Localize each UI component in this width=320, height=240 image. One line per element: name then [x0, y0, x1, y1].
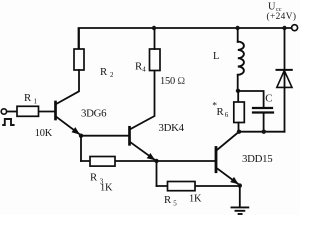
diode D1 cathode bar	[277, 69, 292, 71]
resistor R2	[74, 49, 84, 70]
svg-text:1K: 1K	[189, 193, 202, 204]
svg-text:1: 1	[34, 97, 38, 105]
node A emitter Q1	[79, 134, 83, 138]
capacitor C bottom plate	[253, 111, 273, 113]
resistor R3	[90, 157, 115, 167]
wire R6 bottom lead	[238, 123, 240, 132]
transistor Q3 emitter arrow	[230, 177, 238, 184]
svg-text:3DD15: 3DD15	[242, 153, 272, 165]
svg-text:U: U	[268, 1, 276, 12]
transistor Q2 emitter arrow	[147, 153, 156, 160]
resistor R6	[234, 102, 245, 123]
node D L-R6-C	[236, 89, 240, 93]
svg-text:C: C	[265, 92, 272, 104]
wire input to R1	[7, 111, 17, 113]
wire node D to capacitor top	[238, 91, 264, 107]
transistor Q3 emitter	[217, 168, 239, 184]
transistor Q1 emitter	[57, 117, 81, 135]
svg-text:L: L	[213, 51, 219, 62]
wire node A to Q2 base	[81, 135, 128, 137]
svg-text:5: 5	[173, 199, 177, 207]
node rail-L	[235, 26, 239, 30]
transistor Q3 3DD15 base bar	[215, 148, 218, 172]
wire collector bus	[239, 131, 285, 133]
node B emitter Q2	[154, 159, 158, 163]
svg-text:R: R	[24, 92, 32, 104]
svg-text:R: R	[90, 172, 98, 184]
wire +24V supply rail	[79, 28, 292, 49]
transistor Q2 3DK4 base bar	[128, 127, 131, 144]
svg-text:6: 6	[225, 111, 229, 119]
ground	[232, 206, 249, 208]
svg-text:10K: 10K	[35, 128, 53, 139]
capacitor C top plate	[253, 107, 272, 109]
svg-text:3DG6: 3DG6	[81, 108, 107, 120]
transistor Q2 collector	[131, 71, 155, 129]
transistor Q2 emitter	[131, 142, 156, 160]
transistor Q3 collector	[217, 132, 239, 150]
svg-text:150 Ω: 150 Ω	[160, 76, 185, 87]
wire emitter Q3 to ground	[239, 186, 241, 207]
node C emitter Q3	[238, 183, 242, 187]
wire R1 to Q1 base	[39, 111, 55, 113]
svg-text:R: R	[100, 66, 108, 78]
wire capacitor bottom lead	[263, 114, 265, 132]
wire R2 top lead	[78, 29, 80, 49]
inductor L	[238, 42, 244, 75]
svg-text:R: R	[164, 194, 172, 206]
wire R3 line	[81, 160, 157, 162]
transistor Q1 3DG6 base bar	[54, 102, 57, 119]
resistor R1	[17, 106, 39, 116]
svg-text:2: 2	[110, 71, 114, 79]
wire L bottom lead	[237, 75, 239, 91]
node rail-R4	[152, 26, 156, 30]
wire diode branch	[284, 29, 286, 132]
svg-text:(+24V): (+24V)	[267, 11, 297, 22]
wire node A down to R3	[80, 136, 82, 161]
svg-text:4: 4	[142, 66, 146, 74]
wire node B down to R5	[156, 161, 158, 186]
wire node B to Q3 base	[157, 160, 215, 162]
wire R6 top lead	[237, 91, 239, 102]
transistor Q1 emitter arrow	[72, 127, 81, 135]
svg-text:1K: 1K	[100, 182, 113, 193]
resistor R4	[150, 49, 161, 71]
node E collector bus left	[237, 130, 241, 134]
terminal Ucc	[292, 25, 298, 31]
diode D1 triangle	[277, 71, 292, 88]
node F capacitor-bus	[262, 130, 266, 134]
resistor R5	[168, 182, 196, 191]
svg-text:3DK4: 3DK4	[159, 122, 185, 134]
wire L top lead	[237, 29, 239, 42]
wire R2 bottom to Q1 collector	[57, 70, 80, 104]
node rail-diode	[282, 26, 286, 30]
terminal input	[1, 109, 6, 114]
svg-text:R: R	[217, 106, 225, 118]
wire R5 line	[157, 185, 240, 187]
wire R4 top lead	[154, 29, 156, 49]
input pulse symbol	[2, 119, 14, 125]
